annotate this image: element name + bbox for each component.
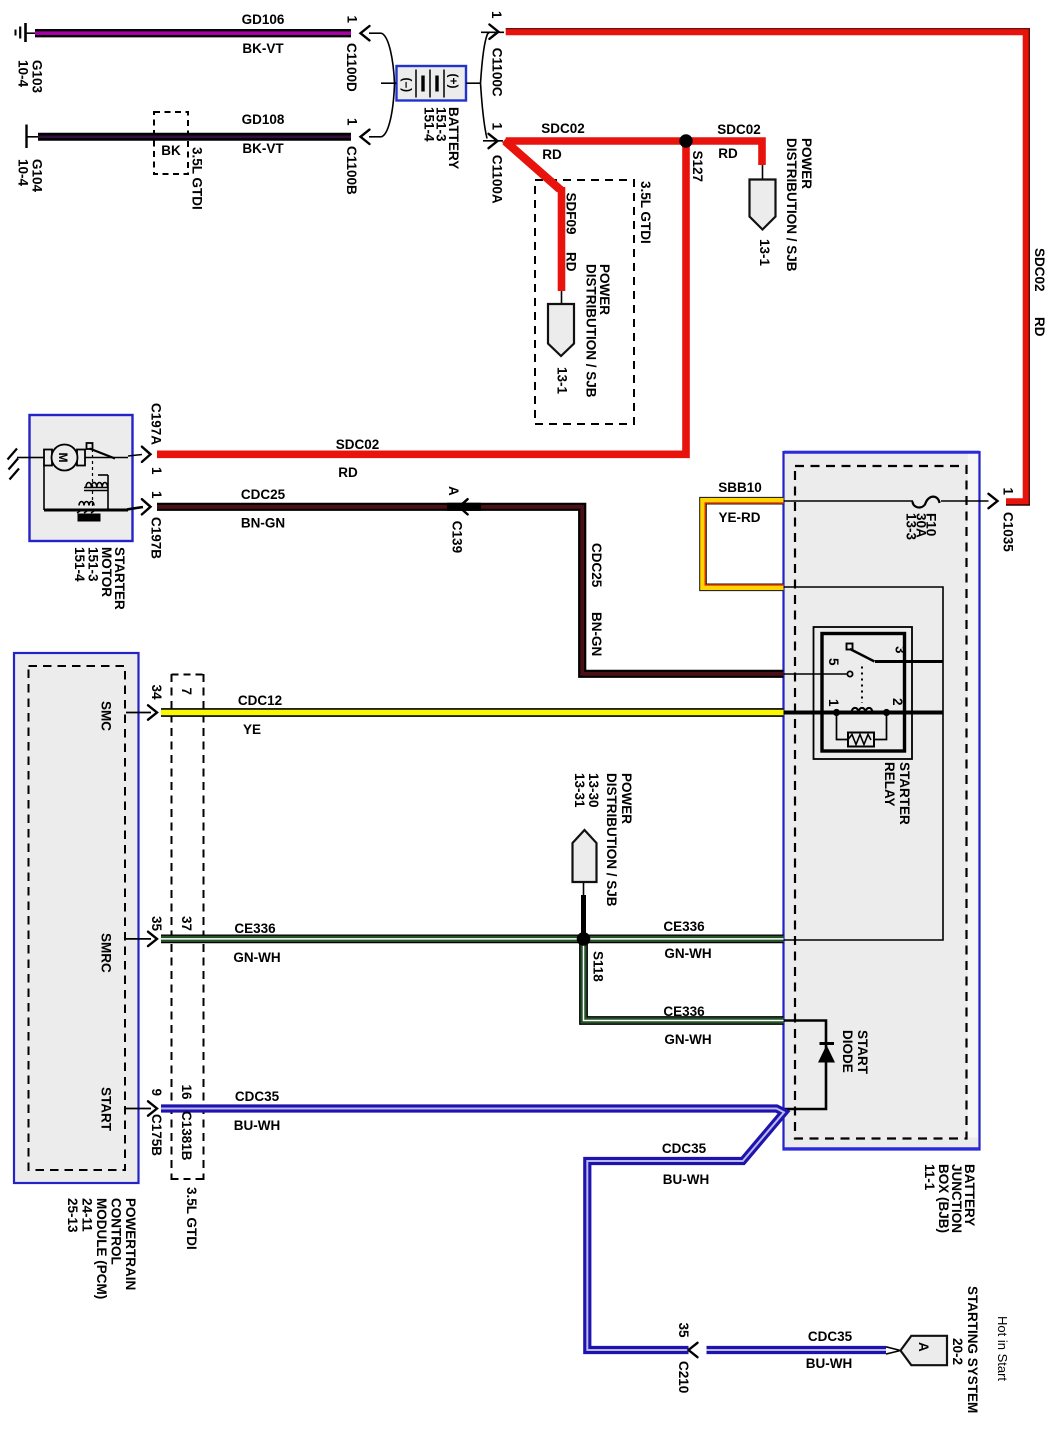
svg-text:9: 9: [149, 1089, 164, 1097]
svg-text:GN-WH: GN-WH: [233, 950, 280, 965]
svg-text:CDC25: CDC25: [589, 543, 604, 588]
svg-text:SDC02: SDC02: [336, 437, 380, 452]
svg-text:SDC02: SDC02: [1032, 248, 1046, 292]
svg-text:34: 34: [149, 685, 164, 701]
svg-text:RD: RD: [1032, 317, 1046, 337]
svg-text:10-4: 10-4: [16, 159, 31, 187]
svg-text:SMRC: SMRC: [99, 933, 114, 973]
svg-text:GN-WH: GN-WH: [664, 1032, 711, 1047]
svg-text:BU-WH: BU-WH: [806, 1356, 853, 1371]
svg-text:MODULE (PCM): MODULE (PCM): [94, 1198, 109, 1299]
svg-text:CE336: CE336: [234, 921, 276, 936]
svg-text:RD: RD: [338, 465, 358, 480]
svg-text:2: 2: [890, 698, 905, 706]
svg-text:37: 37: [179, 916, 194, 931]
svg-text:G104: G104: [30, 159, 45, 193]
svg-text:11-1: 11-1: [922, 1164, 937, 1191]
svg-text:CE336: CE336: [663, 1004, 705, 1019]
svg-text:RELAY: RELAY: [882, 762, 897, 807]
svg-text:CDC25: CDC25: [241, 487, 286, 502]
svg-text:35: 35: [149, 916, 164, 932]
svg-text:16: 16: [179, 1085, 194, 1101]
svg-text:BN-GN: BN-GN: [589, 612, 604, 656]
svg-text:C139: C139: [450, 521, 465, 553]
svg-text:RD: RD: [718, 146, 738, 161]
svg-text:C1100D: C1100D: [344, 43, 359, 92]
svg-text:3: 3: [893, 646, 908, 654]
svg-text:SBB10: SBB10: [718, 480, 762, 495]
svg-text:13-3: 13-3: [904, 513, 919, 541]
svg-text:1: 1: [490, 123, 505, 131]
svg-text:S127: S127: [690, 151, 705, 183]
svg-text:7: 7: [179, 688, 194, 696]
svg-text:C1100A: C1100A: [490, 155, 505, 204]
svg-text:CE336: CE336: [663, 919, 705, 934]
svg-text:SMC: SMC: [99, 701, 114, 731]
svg-text:C1035: C1035: [1001, 512, 1016, 552]
svg-text:A: A: [916, 1342, 931, 1352]
svg-text:SDC02: SDC02: [541, 121, 585, 136]
svg-text:1: 1: [149, 467, 164, 475]
svg-text:3.5L GTDI: 3.5L GTDI: [638, 181, 653, 244]
svg-text:BK: BK: [161, 143, 181, 158]
svg-text:C210: C210: [676, 1361, 691, 1393]
svg-text:GN-WH: GN-WH: [664, 946, 711, 961]
svg-text:G103: G103: [30, 60, 45, 94]
svg-text:13-1: 13-1: [757, 239, 772, 267]
svg-text:24-11: 24-11: [80, 1198, 95, 1232]
svg-text:20-2: 20-2: [950, 1338, 965, 1365]
svg-text:SDF09: SDF09: [564, 193, 579, 235]
svg-text:DISTRIBUTION / SJB: DISTRIBUTION / SJB: [584, 264, 599, 398]
svg-text:1: 1: [826, 699, 841, 707]
svg-text:DIODE: DIODE: [840, 1030, 855, 1073]
svg-text:(+): (+): [447, 74, 461, 89]
svg-text:(–): (–): [400, 78, 414, 93]
svg-text:C1100C: C1100C: [490, 48, 505, 97]
svg-text:BU-WH: BU-WH: [663, 1172, 710, 1187]
svg-text:13-30: 13-30: [586, 773, 601, 808]
svg-text:1: 1: [345, 118, 360, 126]
svg-text:C175B: C175B: [149, 1114, 164, 1156]
svg-text:1: 1: [149, 491, 164, 499]
svg-text:151-4: 151-4: [72, 547, 87, 582]
svg-text:POWERTRAIN: POWERTRAIN: [123, 1198, 138, 1290]
svg-text:S118: S118: [591, 951, 606, 982]
svg-text:3.5L GTDI: 3.5L GTDI: [184, 1187, 199, 1250]
svg-text:35: 35: [676, 1323, 691, 1339]
svg-text:RD: RD: [542, 147, 562, 162]
svg-text:10-4: 10-4: [16, 60, 31, 88]
svg-text:RD: RD: [564, 252, 579, 272]
svg-text:13-1: 13-1: [555, 367, 570, 395]
svg-text:BK-VT: BK-VT: [242, 141, 284, 156]
svg-text:STARTING SYSTEM: STARTING SYSTEM: [965, 1286, 980, 1413]
svg-text:C1381B: C1381B: [179, 1111, 194, 1161]
svg-text:151-4: 151-4: [422, 107, 437, 142]
svg-text:STARTER: STARTER: [897, 762, 912, 825]
svg-text:YE: YE: [243, 722, 261, 737]
svg-text:13-31: 13-31: [572, 773, 587, 808]
svg-text:BN-GN: BN-GN: [241, 516, 285, 531]
svg-text:A: A: [446, 486, 461, 496]
svg-text:START: START: [855, 1030, 870, 1075]
svg-text:DISTRIBUTION / SJB: DISTRIBUTION / SJB: [604, 773, 619, 907]
svg-text:3.5L GTDI: 3.5L GTDI: [190, 147, 205, 210]
svg-text:CDC12: CDC12: [238, 693, 282, 708]
svg-text:BOX (BJB): BOX (BJB): [936, 1164, 951, 1233]
svg-text:START: START: [99, 1087, 114, 1132]
svg-text:1: 1: [345, 16, 360, 24]
svg-text:GD106: GD106: [242, 12, 285, 27]
svg-text:CDC35: CDC35: [808, 1329, 853, 1344]
svg-text:C1100B: C1100B: [344, 146, 359, 195]
svg-text:M: M: [56, 453, 70, 463]
svg-text:YE-RD: YE-RD: [718, 510, 760, 525]
svg-text:SDC02: SDC02: [717, 122, 761, 137]
svg-text:BU-WH: BU-WH: [234, 1118, 281, 1133]
svg-text:C197A: C197A: [149, 403, 164, 445]
svg-text:GD108: GD108: [242, 112, 285, 127]
svg-text:C197B: C197B: [149, 517, 164, 559]
svg-text:1: 1: [489, 11, 504, 19]
svg-text:CDC35: CDC35: [235, 1089, 280, 1104]
svg-text:POWER: POWER: [619, 773, 634, 824]
svg-text:DISTRIBUTION / SJB: DISTRIBUTION / SJB: [784, 138, 799, 272]
svg-text:1: 1: [1001, 488, 1016, 496]
svg-text:Hot in Start: Hot in Start: [995, 1316, 1010, 1381]
svg-text:BK-VT: BK-VT: [242, 41, 284, 56]
svg-text:CDC35: CDC35: [662, 1141, 707, 1156]
svg-text:5: 5: [826, 658, 841, 666]
svg-text:POWER: POWER: [799, 138, 814, 189]
svg-text:CONTROL: CONTROL: [109, 1198, 124, 1265]
svg-text:25-13: 25-13: [65, 1198, 80, 1233]
